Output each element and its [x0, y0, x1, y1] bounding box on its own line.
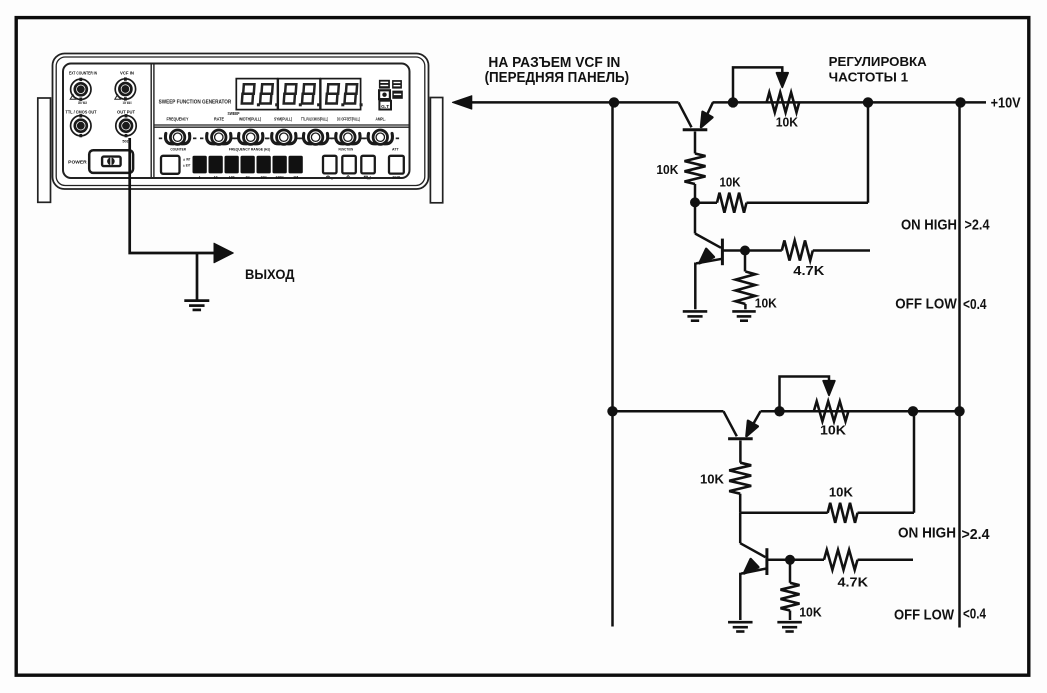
svg-text:10K: 10K	[720, 175, 741, 189]
svg-text:AMPL.: AMPL.	[376, 117, 386, 122]
svg-text:250V MAX: 250V MAX	[78, 101, 87, 105]
resistor R9 10K (horizontal to +10V stage2)	[740, 512, 828, 515]
knob WIDTH	[232, 130, 270, 144]
arrowhead ВЫХОД	[214, 243, 233, 263]
ground R10	[777, 621, 802, 624]
display digit 8	[242, 84, 255, 103]
rail 2 left part	[613, 410, 724, 413]
function generator case	[53, 54, 429, 190]
knob FREQUENCY	[159, 130, 197, 144]
BNC VCF IN	[115, 77, 135, 100]
svg-text:100K: 100K	[276, 175, 285, 179]
node collector-feedback junction	[863, 97, 873, 107]
left vertical rail	[611, 102, 614, 626]
COUNTER button	[161, 156, 180, 174]
svg-text:10: 10	[214, 175, 218, 179]
svg-text:(ПЕРЕДНЯЯ ПАНЕЛЬ): (ПЕРЕДНЯЯ ПАНЕЛЬ)	[485, 70, 630, 86]
main rail to VCF IN, left part	[455, 101, 679, 104]
wire Q4 base	[767, 559, 790, 562]
knob TTL.PUL/CMOS	[297, 130, 335, 144]
node Q4 base junction	[785, 555, 795, 565]
display digit 8	[302, 84, 315, 103]
svg-text:ATT: ATT	[392, 147, 399, 152]
svg-text:100: 100	[229, 175, 235, 179]
transistor Q4 (bottom of stage 2)	[740, 513, 767, 620]
svg-text:<0.4: <0.4	[963, 296, 987, 313]
resistor R2 10K (horizontal to +10V)	[695, 201, 717, 204]
svg-text:10K: 10K	[829, 486, 853, 500]
right vertical +10V rail	[958, 102, 961, 627]
resistor R10 10K (base to ground stage2)	[789, 560, 792, 583]
display digit 8	[284, 84, 297, 103]
potentiometer R8 10K (frequency adjust 2)	[780, 377, 849, 422]
node Q2 base junction	[740, 246, 750, 256]
knob DC OFFSET	[329, 130, 367, 144]
ground output	[184, 299, 209, 302]
svg-text:1: 1	[199, 175, 201, 179]
svg-text:10K: 10K	[776, 116, 798, 130]
svg-text:>2.4: >2.4	[965, 216, 991, 233]
svg-text:G.T: G.T	[381, 104, 389, 109]
transistor Q1 (PNP, top stage)	[679, 102, 713, 129]
svg-text:4.7K: 4.7K	[793, 264, 824, 278]
svg-text:TTL / CMOS OUT: TTL / CMOS OUT	[66, 110, 97, 115]
knob AMPL	[362, 130, 400, 144]
left handle	[38, 98, 51, 202]
svg-text:ON HIGH: ON HIGH	[901, 216, 957, 233]
svg-text:10V MAX: 10V MAX	[123, 101, 132, 105]
knob RATE	[200, 130, 238, 144]
indicator boxes right of display	[379, 80, 403, 110]
potentiometer R3 10K (frequency adjust 1)	[733, 67, 799, 112]
svg-text:НА РАЗЪЕМ VCF IN: НА РАЗЪЕМ VCF IN	[488, 55, 620, 71]
waveform glyphs	[326, 176, 334, 179]
node lower-left junction	[607, 406, 617, 416]
arrowhead to VCF IN	[452, 96, 471, 109]
node VCF junction	[609, 97, 619, 107]
svg-text:SYM(PULL): SYM(PULL)	[274, 117, 292, 122]
svg-text:10K: 10K	[656, 163, 678, 177]
node +10V junction	[955, 97, 965, 107]
warning + 10V MAX	[115, 95, 121, 100]
wire Q2 base	[722, 249, 745, 252]
svg-text:SWEEP: SWEEP	[228, 111, 240, 116]
display digit 8	[344, 84, 357, 103]
node collector-feedback junction stage2	[908, 406, 918, 416]
svg-text:+10V: +10V	[991, 95, 1021, 112]
svg-text:ВЫХОД: ВЫХОД	[245, 266, 295, 282]
right handle	[430, 98, 442, 203]
ATT button	[389, 156, 404, 174]
svg-text:WIDTH(PULL): WIDTH(PULL)	[239, 117, 261, 122]
svg-text:▲ INT: ▲ INT	[183, 157, 191, 161]
svg-text:RATE: RATE	[214, 117, 224, 122]
ground Q2 emitter	[683, 310, 708, 313]
svg-text:>2.4: >2.4	[962, 526, 991, 543]
ground Q4 emitter	[728, 621, 753, 624]
svg-text:SWEEP FUNCTION GENERATOR: SWEEP FUNCTION GENERATOR	[159, 100, 232, 106]
svg-text:OUT PUT: OUT PUT	[117, 110, 135, 115]
knob-area divider	[154, 124, 410, 126]
resistor R4 10K (base to ground)	[744, 251, 747, 272]
svg-text:TTL.PUL/CMOS(PULL): TTL.PUL/CMOS(PULL)	[301, 117, 328, 122]
svg-text:ON HIGH: ON HIGH	[898, 525, 956, 542]
svg-text:EXT COUNTER IN: EXT COUNTER IN	[69, 71, 97, 76]
svg-text:10K: 10K	[260, 175, 267, 179]
wire to ground	[196, 253, 199, 300]
svg-text:FREQUENCY RANGE (Hz): FREQUENCY RANGE (Hz)	[229, 147, 271, 152]
svg-text:FUNCTION: FUNCTION	[338, 147, 353, 152]
node pot-wiper junction	[728, 97, 738, 107]
svg-text:OFF LOW: OFF LOW	[895, 295, 957, 312]
main rail right part	[713, 101, 987, 104]
power switch	[89, 150, 133, 173]
BNC OUT PUT	[116, 114, 136, 137]
display bezel	[236, 79, 360, 110]
svg-text:4.7K: 4.7K	[838, 576, 869, 590]
svg-text:▲ EXT: ▲ EXT	[183, 163, 191, 167]
rail 2 right part	[761, 410, 960, 413]
svg-text:РЕГУЛИРОВКА: РЕГУЛИРОВКА	[829, 54, 928, 69]
svg-text:<0.4: <0.4	[963, 606, 987, 623]
svg-text:20dB: 20dB	[392, 175, 400, 179]
svg-text:10K: 10K	[755, 297, 777, 311]
display digit 8	[260, 84, 273, 103]
warning + 250V MAX	[70, 95, 76, 100]
svg-text:COUNTER: COUNTER	[170, 147, 186, 152]
svg-text:FREQUENCY: FREQUENCY	[167, 117, 189, 122]
svg-text:VCF IN: VCF IN	[120, 71, 134, 76]
svg-text:10K: 10K	[700, 473, 724, 487]
svg-text:ЧАСТОТЫ 1: ЧАСТОТЫ 1	[829, 69, 909, 84]
knob SYM	[265, 130, 303, 144]
svg-text:1M: 1M	[293, 175, 298, 179]
node rail2 +10V junction	[954, 406, 964, 416]
resistor R7 10K (vertical, Q3 base)	[739, 441, 742, 463]
display digit 8	[326, 84, 339, 103]
BNC EXT COUNTER IN	[71, 78, 91, 101]
BNC TTL / CMOS OUT	[71, 114, 91, 137]
resistor R11 4.7K (control input stage2)	[790, 559, 824, 562]
frequency range buttons (black)	[193, 156, 303, 174]
svg-text:10K: 10K	[799, 606, 822, 620]
resistor R1 10K (vertical, Q1 base)	[694, 132, 697, 154]
transistor Q3 (PNP, stage 2)	[724, 411, 761, 438]
ground R4	[732, 310, 756, 313]
svg-text:1K: 1K	[245, 175, 250, 179]
svg-text:POWER: POWER	[68, 160, 87, 165]
node base junction stage1	[690, 197, 700, 207]
FUNCTION buttons (white)	[323, 156, 375, 174]
transistor Q2 (bottom of stage 1)	[695, 202, 722, 309]
svg-text:OFF LOW: OFF LOW	[894, 607, 955, 624]
panel divider	[150, 64, 152, 179]
node pot-wiper junction stage2	[774, 406, 784, 416]
resistor R5 4.7K (control input)	[745, 249, 782, 252]
svg-text:10K: 10K	[820, 424, 846, 438]
wire from OUT PUT connector	[130, 138, 217, 253]
svg-text:DC OFFSET(PULL): DC OFFSET(PULL)	[337, 117, 360, 122]
